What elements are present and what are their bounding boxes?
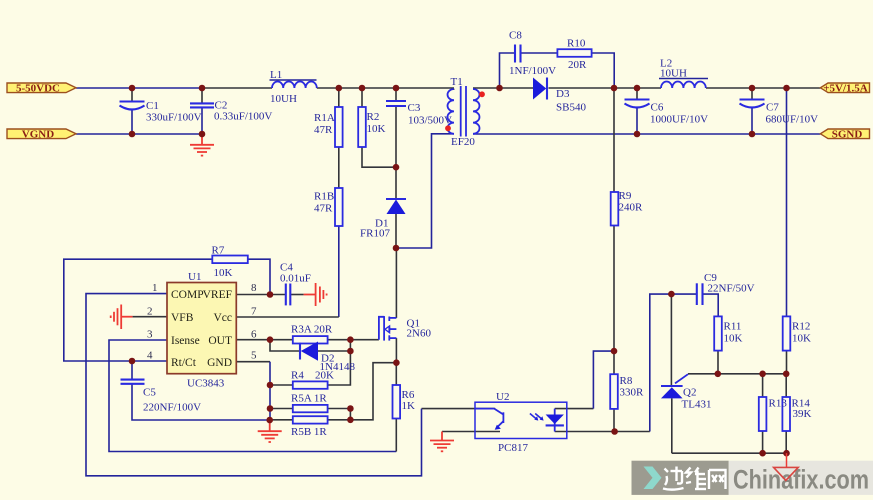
wire input rail mid: [202, 87, 272, 89]
resistor R6: [393, 385, 416, 419]
watermark chevron: [644, 467, 662, 490]
wire C4 to ground black: [290, 294, 304, 296]
wire Isense loop: [109, 340, 396, 452]
svg-text:Vcc: Vcc: [213, 312, 232, 324]
ground VGND: [190, 134, 214, 156]
wire C2 top stem: [201, 88, 203, 103]
svg-text:GND: GND: [207, 357, 232, 369]
capacitor C5: [121, 380, 202, 414]
wire OUT pin6 left: [236, 339, 293, 341]
svg-text:47R: 47R: [314, 124, 333, 136]
svg-text:SGND: SGND: [832, 129, 863, 141]
svg-text:VFB: VFB: [171, 312, 194, 324]
wire output rail L2 to +5V flag: [706, 87, 820, 89]
wire R7 to RtCt loop: [64, 259, 212, 361]
svg-text:U2: U2: [496, 391, 509, 403]
svg-text:PC817: PC817: [498, 442, 528, 454]
wire R14 bottom: [785, 431, 787, 453]
svg-text:103/500V: 103/500V: [408, 115, 452, 127]
svg-text:20K: 20K: [315, 370, 334, 382]
svg-text:R7: R7: [212, 245, 225, 257]
wire R12 bottom: [786, 351, 788, 374]
optocoupler U2 PC817: [475, 391, 567, 454]
watermark bar right: [729, 461, 873, 495]
wire R13 top: [762, 374, 764, 397]
svg-text:COMP: COMP: [171, 289, 204, 301]
svg-text:47R: 47R: [314, 203, 333, 215]
wire +5V rail to R12 column: [786, 88, 788, 316]
resistor R4: [291, 370, 334, 389]
svg-text:R12: R12: [792, 321, 810, 333]
wire source sense loop: [350, 363, 396, 420]
svg-text:10UH: 10UH: [270, 93, 297, 105]
svg-text:C7: C7: [766, 102, 779, 114]
wire VREF pin8 row: [236, 294, 286, 296]
wire R10 to rail: [592, 53, 615, 88]
port VGND: [7, 129, 76, 141]
svg-text:10K: 10K: [214, 267, 233, 279]
wire R5A right: [328, 408, 351, 410]
inductor L1: [270, 69, 317, 105]
wire C9 left: [671, 293, 696, 295]
wire D2 to R3A right tie: [349, 340, 351, 351]
svg-text:7: 7: [251, 305, 257, 317]
svg-text:T1: T1: [451, 76, 463, 88]
svg-text:Q2: Q2: [683, 387, 696, 399]
svg-text:TL431: TL431: [682, 399, 712, 411]
transistor Q1 2N60: [379, 316, 432, 341]
ground U2 emitter: [430, 432, 454, 452]
wire R3A right to gate: [328, 339, 379, 341]
resistor R14: [782, 397, 811, 431]
svg-text:330uF/100V: 330uF/100V: [146, 112, 202, 124]
wire R4 right up tie: [328, 351, 351, 385]
resistor R13: [759, 397, 788, 431]
resistor R12: [783, 316, 811, 350]
svg-text:1: 1: [152, 282, 158, 294]
svg-text:22NF/50V: 22NF/50V: [708, 283, 755, 295]
svg-text:C6: C6: [651, 102, 664, 114]
wire C1 top stem: [131, 88, 133, 101]
wire C4 ground red stem: [304, 294, 316, 296]
wire rail to R9: [613, 88, 615, 192]
resistor R5B: [291, 416, 328, 438]
svg-text:R11: R11: [724, 321, 742, 333]
svg-text:2N60: 2N60: [407, 328, 432, 340]
svg-text:C8: C8: [509, 30, 522, 42]
inductor L2: [659, 58, 708, 89]
svg-text:R5B 1R: R5B 1R: [291, 426, 327, 438]
watermark char wang: [709, 470, 726, 489]
svg-text:R4: R4: [291, 370, 304, 382]
wire R1A to R1B: [338, 147, 340, 188]
wire D1 anode to drain node: [395, 214, 397, 248]
svg-text:10K: 10K: [367, 123, 386, 135]
capacitor C7: [740, 100, 819, 126]
svg-text:+5V/1.5A: +5V/1.5A: [823, 82, 868, 94]
wire Q1 drain column: [395, 248, 397, 318]
wire R8 top: [613, 351, 615, 374]
resistor R9: [611, 190, 643, 226]
svg-text:R1B: R1B: [314, 191, 334, 203]
wire R1A top: [338, 88, 340, 107]
svg-text:10K: 10K: [792, 333, 811, 345]
ground VFB (pointing left): [111, 305, 122, 330]
svg-text:Rt/Ct: Rt/Ct: [171, 357, 197, 369]
wire C6 bottom stem: [636, 108, 638, 134]
svg-text:OUT: OUT: [208, 335, 232, 347]
wire C8 branch up: [500, 53, 516, 88]
wire U2 anode to R9 node: [593, 351, 614, 409]
svg-text:8: 8: [251, 282, 257, 294]
svg-text:1NF/100V: 1NF/100V: [509, 65, 556, 77]
wire U2 emitter pin: [442, 431, 500, 433]
port +5V/1.5A: [820, 82, 869, 94]
wire U2 bottom right pin: [555, 431, 650, 433]
wire C1 bottom stem: [131, 110, 133, 134]
capacitor C6: [625, 100, 709, 126]
wire drain node to T1 primary bottom: [396, 134, 454, 248]
diode D3 SB540: [533, 78, 586, 114]
wire T1 secondary top to D3: [473, 87, 533, 89]
resistor R7: [212, 245, 248, 280]
wire R5B left: [270, 419, 293, 421]
svg-text:R1A: R1A: [314, 112, 335, 124]
svg-text:VGND: VGND: [22, 129, 54, 141]
svg-text:R3A 20R: R3A 20R: [291, 324, 333, 336]
wire R11 bottom: [717, 351, 719, 374]
wire R2 top: [361, 88, 363, 107]
wire output rail D3 to L2: [549, 87, 662, 89]
svg-text:240R: 240R: [619, 202, 644, 214]
wire input rail left: [76, 87, 202, 89]
svg-text:C5: C5: [143, 387, 156, 399]
wire R6 bottom: [395, 418, 397, 451]
svg-text:Chinafix.com: Chinafix.com: [733, 465, 869, 495]
wire U2 collector pin: [422, 408, 496, 410]
wire C7 bottom stem: [751, 108, 753, 134]
wire R5B right: [328, 419, 351, 421]
svg-text:6: 6: [251, 328, 257, 340]
svg-text:C3: C3: [408, 102, 421, 114]
transformer T1: [445, 76, 485, 148]
ground power triangle: [774, 453, 799, 480]
shunt regulator Q2 TL431: [661, 374, 711, 410]
wire C7 top stem: [751, 88, 753, 99]
wire D2 left jog: [270, 340, 300, 351]
wire C9 right to R11: [703, 294, 719, 316]
svg-text:D3: D3: [556, 88, 570, 100]
svg-text:330R: 330R: [620, 387, 645, 399]
capacitor C3: [386, 101, 452, 127]
svg-text:UC3843: UC3843: [187, 378, 225, 390]
svg-text:EF20: EF20: [451, 136, 475, 148]
IC U1 UC3843: [147, 271, 257, 390]
resistor R10: [557, 38, 591, 72]
wire R9 to node: [613, 226, 615, 352]
wire pin5 column: [269, 362, 271, 420]
wire R8 bottom: [613, 409, 615, 432]
wire C2 bottom stem: [201, 108, 203, 134]
svg-text:R5A 1R: R5A 1R: [291, 393, 327, 405]
wire R1B to Vcc vertical: [338, 226, 340, 317]
svg-text:U1: U1: [188, 271, 201, 283]
wire C3 top stem: [395, 88, 397, 100]
svg-text:39K: 39K: [793, 408, 812, 420]
wire Q1 source column: [395, 338, 397, 363]
wire opto node to C9 node: [650, 294, 672, 431]
svg-text:4: 4: [147, 350, 153, 362]
wire R5A left: [270, 408, 293, 410]
capacitor C9: [697, 272, 755, 305]
svg-text:2: 2: [147, 305, 153, 317]
svg-text:1K: 1K: [402, 400, 416, 412]
port SGND: [820, 129, 869, 141]
wire D2 right: [318, 350, 350, 352]
wire C5 top stem: [131, 361, 133, 379]
resistor R11: [714, 316, 742, 350]
svg-text:1000UF/10V: 1000UF/10V: [650, 114, 708, 126]
svg-text:680UF/10V: 680UF/10V: [766, 114, 819, 126]
wire VFB ground red stem: [121, 316, 133, 318]
svg-text:Isense: Isense: [171, 335, 200, 347]
capacitor C1: [120, 100, 202, 124]
watermark char wei: [686, 468, 706, 490]
svg-text:3: 3: [147, 328, 153, 340]
svg-text:SB540: SB540: [556, 102, 586, 114]
ground R5 node: [258, 420, 282, 442]
wire R5 right tie: [349, 409, 351, 420]
wire COMP feedback loop: [86, 294, 422, 476]
capacitor C2: [190, 100, 272, 123]
resistor R3A: [291, 324, 333, 344]
wire R6 top: [395, 363, 397, 385]
wire U2 top right pin: [555, 408, 594, 410]
wire SGND rail: [473, 133, 820, 135]
svg-text:5-50VDC: 5-50VDC: [16, 82, 60, 94]
wire Q2 cathode column: [670, 294, 672, 385]
resistor R1B: [314, 188, 343, 226]
wire C5 bottom loop: [132, 384, 270, 421]
wire snubber node to D1 cathode: [395, 167, 397, 199]
svg-text:0.33uF/100V: 0.33uF/100V: [214, 111, 272, 123]
wire C3 bottom stem: [395, 107, 397, 167]
svg-text:FR107: FR107: [360, 228, 390, 240]
svg-text:VREF: VREF: [203, 289, 232, 301]
watermark bar left: [632, 461, 729, 495]
resistor R1A: [314, 107, 343, 147]
wire VGND rail: [76, 133, 202, 135]
wire Q2 anode column: [671, 398, 673, 453]
ground C4 (pointing right): [316, 283, 327, 306]
wire Vcc pin7 row: [236, 316, 339, 318]
svg-text:0.01uF: 0.01uF: [280, 273, 311, 285]
wire GND pin5 stub: [236, 361, 270, 363]
svg-text:R13: R13: [769, 398, 788, 410]
resistor R8: [610, 374, 644, 409]
svg-text:R8: R8: [620, 375, 633, 387]
port 5-50VDC: [7, 82, 76, 94]
svg-text:R2: R2: [367, 111, 380, 123]
svg-text:5: 5: [251, 350, 257, 362]
wire R13 bottom: [762, 431, 764, 453]
wire R2 bottom to snubber node: [362, 147, 396, 167]
wire R4 left: [270, 384, 293, 386]
diode D1 FR107: [360, 199, 406, 240]
resistor R5A: [291, 393, 328, 413]
wire R14 top: [785, 374, 787, 397]
wire feedback row lower: [672, 452, 787, 454]
wire input rail right (L1 to T1): [317, 87, 454, 89]
diode D2 1N4148: [300, 342, 355, 373]
capacitor C8: [509, 30, 556, 78]
wire R7 right to VREF: [248, 259, 270, 294]
wire feedback row upper: [688, 373, 787, 375]
wire C8 to R10: [521, 52, 558, 54]
svg-text:20R: 20R: [568, 59, 587, 71]
wire VFB pin2: [133, 316, 167, 318]
svg-text:220NF/100V: 220NF/100V: [143, 402, 201, 414]
watermark char xun: [663, 467, 684, 490]
resistor R2: [358, 107, 385, 147]
svg-text:10K: 10K: [724, 333, 743, 345]
svg-text:R10: R10: [567, 38, 586, 50]
wire C6 top stem: [636, 88, 638, 99]
svg-text:C1: C1: [146, 100, 159, 112]
capacitor C4: [280, 262, 311, 306]
svg-text:R9: R9: [619, 190, 632, 202]
